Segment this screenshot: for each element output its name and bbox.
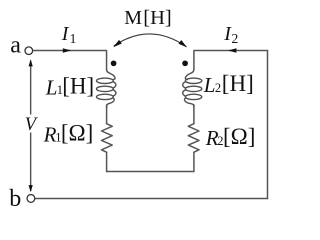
polarity dot L1	[111, 60, 117, 66]
svg-text:[Ω]: [Ω]	[61, 121, 93, 146]
svg-text:L: L	[203, 73, 216, 97]
wire bottom node to R2	[193, 152, 195, 171]
svg-text:[H]: [H]	[222, 71, 254, 96]
svg-text:[H]: [H]	[62, 74, 94, 99]
polarity dot L2	[182, 60, 188, 66]
svg-text:1: 1	[70, 31, 77, 46]
svg-text:M: M	[124, 7, 142, 29]
svg-text:[Ω]: [Ω]	[223, 124, 255, 149]
svg-text:2: 2	[215, 81, 221, 95]
svg-text:L: L	[45, 76, 58, 100]
wire right vertical	[267, 50, 269, 198]
resistor R2	[188, 124, 199, 153]
wire R1 to bottom node	[106, 152, 108, 171]
wire top-right from L2 top corner to right side	[194, 50, 268, 69]
svg-text:[H]: [H]	[143, 7, 171, 29]
wire R2 to L2	[193, 105, 195, 124]
wire top-left from a to L1 top corner	[33, 50, 107, 69]
resistor R1	[102, 124, 113, 153]
svg-text:a: a	[10, 32, 21, 58]
wire bottom from b to right vertical	[35, 197, 268, 199]
svg-text:V: V	[25, 115, 39, 135]
current arrow I1	[63, 48, 71, 52]
svg-text:I: I	[61, 23, 70, 45]
inductor L1 coil	[97, 70, 116, 107]
terminal a	[25, 47, 33, 55]
voltage arrow V (double headed, a to b)	[30, 61, 32, 192]
svg-text:b: b	[9, 186, 21, 212]
wire bottom inner connecting branches	[107, 171, 194, 173]
current arrow I2	[228, 48, 236, 52]
inductor L2 coil (mirrored)	[183, 70, 202, 107]
svg-text:2: 2	[232, 31, 239, 46]
wire L1 to R1	[106, 105, 108, 124]
terminal b	[27, 195, 35, 203]
mutual inductance arc M	[114, 34, 187, 47]
